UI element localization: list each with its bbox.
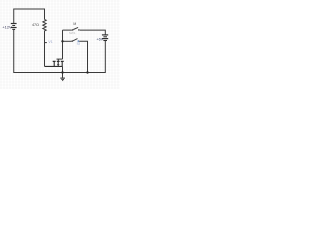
svg-text:+12V: +12V [2, 24, 12, 29]
svg-text:V1: V1 [48, 40, 52, 44]
svg-text:S2: S2 [77, 41, 81, 45]
svg-text:SW1: SW1 [69, 31, 76, 35]
svg-text:+6V: +6V [96, 38, 103, 42]
svg-text:M: M [73, 22, 76, 26]
svg-text:47Ω: 47Ω [32, 23, 39, 27]
